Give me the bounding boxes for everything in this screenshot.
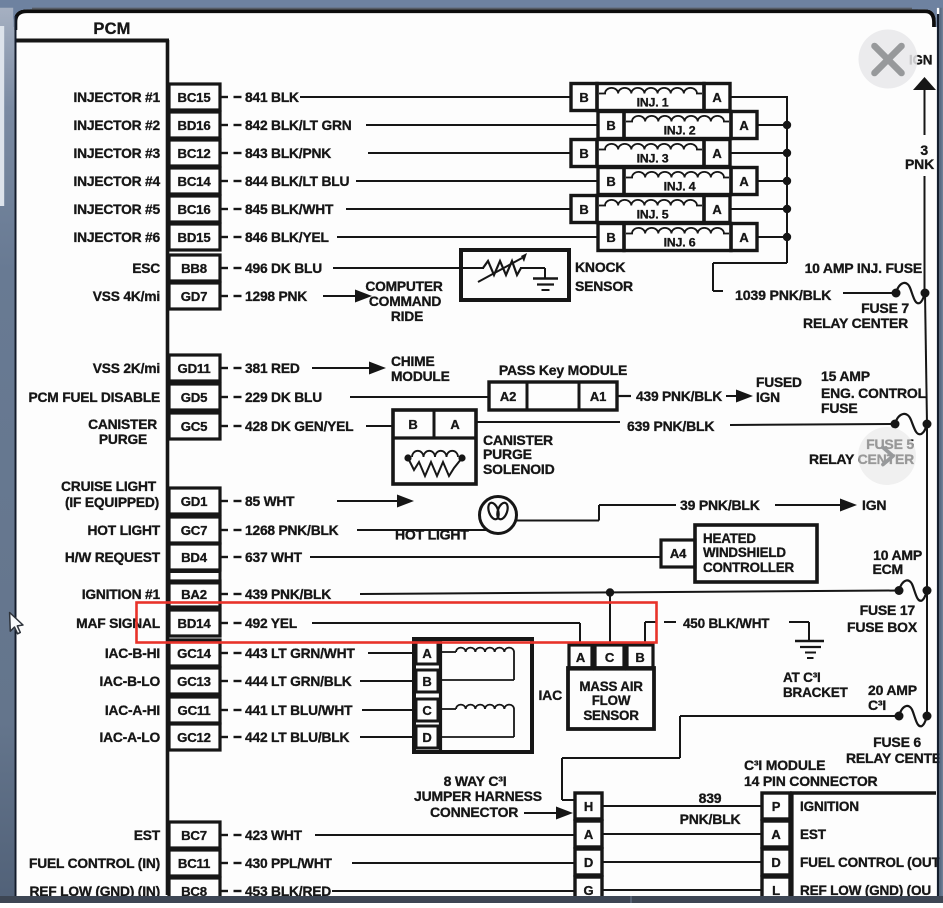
svg-text:GD7: GD7 [181,289,208,304]
heated windshield controller A4 [661,540,695,567]
svg-text:ECM: ECM [872,561,903,577]
svg-text:IAC-B-LO: IAC-B-LO [100,674,161,689]
wire 39 PNK/BLK to IGN [515,520,599,522]
svg-text:8 WAY C³I: 8 WAY C³I [444,773,507,789]
wire 85 WHT arrow [337,500,399,502]
canister purge solenoid [393,410,476,484]
svg-text:B: B [579,146,588,161]
svg-text:IGNITION: IGNITION [800,799,859,814]
svg-text:841 BLK: 841 BLK [245,90,299,105]
svg-text:IGN: IGN [756,390,780,405]
8-way pin A [575,821,602,847]
wire 423 WHT [315,834,575,836]
svg-text:COMMAND: COMMAND [369,294,441,309]
svg-text:SENSOR: SENSOR [575,278,633,294]
pin tick A1 [617,395,631,397]
svg-text:229 DK BLU: 229 DK BLU [245,390,322,405]
svg-text:C: C [422,703,432,718]
svg-text:PNK: PNK [905,156,934,172]
arrow up to IGN [913,77,936,90]
svg-text:439 PNK/BLK: 439 PNK/BLK [245,587,331,602]
C3I module pin A [762,821,790,847]
svg-text:INJ. 6: INJ. 6 [664,236,696,250]
wire 1298 PNK arrow to COMPUTER COMMAND RIDE [323,295,357,297]
svg-text:HOT LIGHT: HOT LIGHT [87,523,160,538]
svg-text:IAC-A-HI: IAC-A-HI [105,703,160,718]
wire drop to MAF pin C [609,593,611,646]
wire bus fuse7 to fuse5 [925,293,927,424]
svg-text:B: B [579,90,588,105]
svg-text:442 LT BLU/BLK: 442 LT BLU/BLK [245,730,349,745]
svg-text:428 DK GEN/YEL: 428 DK GEN/YEL [245,419,353,434]
svg-text:H/W REQUEST: H/W REQUEST [65,550,161,565]
8-way pin D [575,849,602,875]
svg-text:A: A [739,174,749,189]
ground inside knock sensor [544,268,546,278]
wire 442 LT BLU/BLK [360,736,414,738]
svg-text:FUEL CONTROL (IN): FUEL CONTROL (IN) [29,856,160,871]
junction node inj 6 bus [783,233,791,241]
svg-text:423 WHT: 423 WHT [245,828,303,843]
svg-text:P: P [772,799,781,814]
wire bus ECM fuse to C3I fuse [926,590,928,716]
svg-text:WINDSHIELD: WINDSHIELD [703,545,786,560]
svg-text:A: A [712,202,722,217]
mouse cursor [10,613,23,634]
svg-text:MASS AIR: MASS AIR [579,679,643,694]
junction node inj 3 bus [783,149,791,157]
svg-text:(IF EQUIPPED): (IF EQUIPPED) [65,495,159,510]
svg-text:GD11: GD11 [178,361,211,376]
injector supply bus wire [786,96,788,263]
svg-text:444 LT GRN/BLK: 444 LT GRN/BLK [245,674,352,689]
svg-text:A: A [739,230,749,245]
svg-text:L: L [772,883,780,898]
svg-text:REF LOW (GND) (OU: REF LOW (GND) (OU [800,883,931,898]
svg-text:839: 839 [699,790,722,806]
wire 453 BLK/RED [332,890,575,892]
svg-text:ESC: ESC [132,261,160,276]
svg-text:10 AMP INJ. FUSE: 10 AMP INJ. FUSE [805,260,922,276]
svg-text:441 LT BLU/WHT: 441 LT BLU/WHT [245,703,353,718]
svg-text:PURGE: PURGE [483,446,532,462]
svg-text:BC11: BC11 [178,856,210,871]
svg-text:14 PIN CONNECTOR: 14 PIN CONNECTOR [744,773,878,789]
IAC pin D [416,726,438,748]
svg-text:MAF SIGNAL: MAF SIGNAL [76,616,160,631]
wire 639 PNK/BLK [476,421,620,423]
next button overlay circle [858,427,916,485]
svg-text:FUSE: FUSE [821,400,858,416]
svg-text:BC15: BC15 [178,90,211,105]
svg-text:D: D [771,855,780,870]
svg-text:INJECTOR #6: INJECTOR #6 [74,230,161,245]
svg-text:A: A [739,118,749,133]
wire injector 4 to bus [757,180,787,182]
IAC pin B [416,670,438,692]
svg-text:INJ. 3: INJ. 3 [637,152,669,166]
svg-text:FUSE 6: FUSE 6 [873,734,921,750]
svg-text:INJECTOR #4: INJECTOR #4 [74,174,161,189]
svg-text:BRACKET: BRACKET [783,685,849,700]
wire 839 PNK/BLK H to P [602,805,762,807]
svg-text:EST: EST [134,828,161,843]
wire G to L [602,889,762,891]
svg-text:842 BLK/LT GRN: 842 BLK/LT GRN [245,118,352,133]
svg-text:381 RED: 381 RED [245,361,300,376]
svg-text:C: C [605,650,615,665]
svg-text:IGN: IGN [862,497,886,513]
svg-text:GD1: GD1 [181,494,208,509]
svg-text:RELAY CENTER: RELAY CENTER [803,315,908,331]
svg-text:439 PNK/BLK: 439 PNK/BLK [636,389,722,404]
svg-text:637 WHT: 637 WHT [245,550,303,565]
resistor (piezo) inside knock sensor [461,267,484,269]
svg-text:PURGE: PURGE [99,432,147,447]
wire 845 BLK/WHT [346,208,571,210]
svg-text:D: D [422,730,431,745]
svg-text:RIDE: RIDE [391,309,423,324]
svg-text:BA2: BA2 [181,587,207,602]
window bottom bar [0,896,943,903]
svg-text:FUEL CONTROL (OUT: FUEL CONTROL (OUT [800,855,940,870]
wire 428 DK GEN/YEL [366,425,393,427]
svg-text:BC12: BC12 [178,146,211,161]
svg-text:BD15: BD15 [178,230,211,245]
document top border [15,11,934,30]
svg-text:A: A [422,646,432,661]
svg-text:PCM: PCM [93,20,130,38]
wire 843 BLK/PNK [368,152,571,154]
ground at C3I bracket [795,640,824,642]
svg-text:HEATED: HEATED [703,531,756,546]
svg-text:450 BLK/WHT: 450 BLK/WHT [683,616,770,631]
wire injector 6 to bus [757,236,787,238]
svg-text:GC12: GC12 [177,730,211,745]
svg-text:443 LT GRN/WHT: 443 LT GRN/WHT [245,646,355,661]
window right strip [937,14,939,903]
svg-text:IAC-B-HI: IAC-B-HI [105,646,160,661]
PCM right edge wire [166,40,170,895]
svg-text:INJ. 4: INJ. 4 [664,180,696,194]
wire C3I fuse to 8-way connector H [680,715,897,717]
wire 842 BLK/LT GRN [366,124,598,126]
wire D to D [602,861,762,863]
wire injector 1 to bus [730,96,787,98]
svg-text:INJ. 2: INJ. 2 [664,124,696,138]
svg-text:85 WHT: 85 WHT [245,494,295,509]
svg-text:D: D [584,855,593,870]
svg-text:GC5: GC5 [181,419,208,434]
svg-text:846 BLK/YEL: 846 BLK/YEL [245,230,329,245]
svg-text:MODULE: MODULE [391,369,450,384]
wire bus fuse5 to ECM fuse [926,424,928,590]
wire 444 LT GRN/BLK [360,680,414,682]
svg-text:B: B [606,174,615,189]
svg-text:A: A [771,827,781,842]
svg-text:B: B [408,417,417,432]
PCM top border wire [15,39,169,43]
svg-text:IGNITION #1: IGNITION #1 [82,587,161,602]
svg-text:15 AMP: 15 AMP [821,368,870,384]
injector INJ. 2 [598,112,624,139]
wire injector 3 to bus [730,152,787,154]
wire 229 DK BLU [350,396,489,398]
svg-text:JUMPER HARNESS: JUMPER HARNESS [414,788,542,804]
svg-text:A: A [576,650,586,665]
wire 496 DK BLU [333,267,460,269]
close button (X) [859,30,918,89]
svg-text:843 BLK/PNK: 843 BLK/PNK [245,146,331,161]
svg-text:GD5: GD5 [181,390,208,405]
svg-text:KNOCK: KNOCK [575,259,625,275]
svg-text:FLOW: FLOW [592,693,631,708]
wire 841 BLK [300,96,571,98]
svg-text:GC13: GC13 [177,674,211,689]
window top bar [0,0,943,8]
svg-text:A: A [450,417,460,432]
wire 430 PPL/WHT [352,862,575,864]
wire 1268 PNK/BLK [357,529,487,531]
svg-text:HOT LIGHT: HOT LIGHT [395,527,469,543]
svg-text:INJ. 5: INJ. 5 [637,208,669,222]
svg-text:INJ. 1: INJ. 1 [637,96,669,110]
svg-text:CANISTER: CANISTER [88,417,157,432]
C3I module pin L [762,877,790,903]
junction node on 439 PNK/BLK [606,588,614,596]
svg-text:GC11: GC11 [178,703,211,718]
svg-text:IAC-A-LO: IAC-A-LO [100,730,161,745]
wire 450 BLK/WHT to ground [644,622,646,645]
svg-text:INJECTOR #1: INJECTOR #1 [74,90,161,105]
wire 3 PNK vertical bus [924,90,926,135]
svg-text:G: G [584,883,594,898]
svg-text:FUSE BOX: FUSE BOX [847,619,918,635]
svg-text:A1: A1 [590,389,606,404]
svg-text:AT C³I: AT C³I [783,670,821,685]
svg-text:SOLENOID: SOLENOID [483,461,555,477]
svg-text:C³I: C³I [868,697,886,713]
svg-text:1268 PNK/BLK: 1268 PNK/BLK [245,523,339,538]
unused pin stub [169,572,220,584]
svg-text:BC7: BC7 [181,828,207,843]
svg-text:PNK/BLK: PNK/BLK [680,811,741,827]
svg-text:FUSE 7: FUSE 7 [861,300,909,316]
wire 492 YEL to MAF pin A [312,622,580,624]
wire 637 WHT [310,556,661,558]
svg-text:A4: A4 [670,546,687,561]
injector INJ. 6 [598,224,624,251]
IAC valve box [414,639,532,752]
svg-text:FUSED: FUSED [756,375,802,390]
wire injector 2 to bus [757,124,787,126]
svg-text:39 PNK/BLK: 39 PNK/BLK [680,497,760,513]
svg-text:1039 PNK/BLK: 1039 PNK/BLK [735,288,832,304]
mass air flow sensor [568,668,654,729]
svg-text:B: B [606,230,615,245]
injector INJ. 5 [571,196,597,223]
svg-text:CONNECTOR: CONNECTOR [430,804,518,820]
svg-text:INJECTOR #2: INJECTOR #2 [74,118,161,133]
svg-text:PASS Key MODULE: PASS Key MODULE [499,362,627,378]
wire 441 LT BLU/WHT [362,709,414,711]
svg-text:VSS 4K/mi: VSS 4K/mi [93,289,160,304]
svg-text:845 BLK/WHT: 845 BLK/WHT [245,202,334,217]
svg-text:BC16: BC16 [178,202,211,217]
svg-text:GC7: GC7 [181,523,208,538]
IAC coil A-B [441,651,457,653]
IAC coil C-D [441,708,457,710]
svg-text:B: B [635,650,644,665]
wire 381 RED arrow to CHIME MODULE [312,367,371,369]
svg-text:B: B [606,118,615,133]
wire 443 LT GRN/WHT [368,652,414,654]
8-way pin G [575,877,602,903]
svg-text:BD14: BD14 [178,616,212,631]
svg-text:INJECTOR #5: INJECTOR #5 [74,202,161,217]
IAC pin C [416,699,438,721]
injector INJ. 4 [598,168,624,195]
svg-text:IAC: IAC [538,687,562,703]
fuse 15 AMP ENG CONTROL (FUSE 5) [895,414,927,434]
C3I module pin P [762,793,790,819]
C3I module pin D [762,849,790,875]
svg-text:A: A [584,827,594,842]
svg-text:CONTROLLER: CONTROLLER [703,560,795,575]
IAC pin A [416,642,438,664]
svg-text:ENG. CONTROL: ENG. CONTROL [821,385,927,401]
svg-text:496 DK BLU: 496 DK BLU [245,261,322,276]
svg-text:BD16: BD16 [178,118,211,133]
svg-text:B: B [579,202,588,217]
svg-text:20 AMP: 20 AMP [868,682,917,698]
junction node inj 4 bus [783,177,791,185]
svg-text:H: H [584,799,593,814]
window left strip [0,0,14,903]
svg-text:COMPUTER: COMPUTER [365,279,443,294]
wire 844 BLK/LT BLU [356,180,598,182]
svg-text:CRUISE LIGHT: CRUISE LIGHT [61,479,157,494]
svg-text:VSS 2K/mi: VSS 2K/mi [93,361,160,376]
svg-text:CHIME: CHIME [391,354,434,369]
svg-text:RELAY CENTER: RELAY CENTER [846,750,943,766]
junction node inj 5 bus [783,205,791,213]
wire 439 PNK/BLK from BA2 to ECM fuse [360,591,899,595]
svg-text:1298 PNK: 1298 PNK [245,289,307,304]
svg-text:INJECTOR #3: INJECTOR #3 [74,146,161,161]
svg-text:A: A [712,90,722,105]
svg-text:844 BLK/LT BLU: 844 BLK/LT BLU [245,174,349,189]
svg-text:C³I MODULE: C³I MODULE [744,757,825,773]
svg-text:EST: EST [800,827,827,842]
8-way pin H [575,793,602,819]
svg-text:PCM FUEL DISABLE: PCM FUEL DISABLE [29,390,160,405]
svg-text:A: A [712,146,722,161]
svg-text:SENSOR: SENSOR [583,708,639,723]
svg-text:BC14: BC14 [178,174,212,189]
svg-text:430 PPL/WHT: 430 PPL/WHT [245,856,333,871]
C3I module 14-pin connector box [790,791,936,795]
svg-text:B: B [422,674,431,689]
highlight box (red) on MAF SIGNAL row [137,603,657,643]
svg-text:GC14: GC14 [177,646,212,661]
svg-text:BB8: BB8 [181,261,207,276]
knock sensor box [461,250,569,300]
wire injector 5 to bus [730,208,787,210]
injector INJ. 1 [571,84,597,111]
svg-text:639 PNK/BLK: 639 PNK/BLK [627,418,714,434]
injector INJ. 3 [571,140,597,167]
svg-text:492 YEL: 492 YEL [245,616,297,631]
document left border [14,16,16,896]
svg-text:BD4: BD4 [181,550,208,565]
wire 846 BLK/YEL [337,236,598,238]
wire A to A [602,833,762,835]
hot light lamp [480,497,517,534]
svg-text:FUSE 17: FUSE 17 [860,602,916,618]
svg-text:A2: A2 [500,389,516,404]
junction node inj 2 bus [783,121,791,129]
